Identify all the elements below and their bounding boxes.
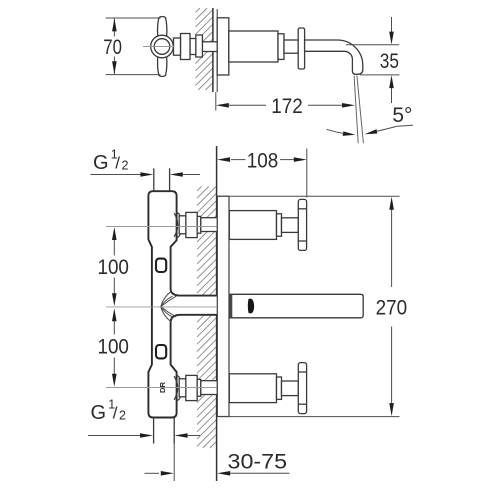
svg-text:172: 172	[271, 94, 303, 118]
svg-text:2: 2	[122, 159, 129, 173]
svg-text:/: /	[113, 403, 118, 422]
svg-text:30-75: 30-75	[228, 450, 288, 474]
svg-text:G: G	[91, 402, 107, 424]
svg-text:270: 270	[376, 295, 408, 319]
svg-text:108: 108	[247, 149, 279, 173]
svg-text:/: /	[115, 153, 120, 172]
svg-text:70: 70	[103, 35, 122, 59]
svg-text:2: 2	[119, 409, 126, 423]
svg-text:100: 100	[97, 335, 129, 359]
svg-text:G: G	[93, 152, 109, 174]
svg-text:100: 100	[97, 255, 129, 279]
svg-text:35: 35	[380, 49, 399, 73]
svg-text:5°: 5°	[392, 103, 412, 127]
